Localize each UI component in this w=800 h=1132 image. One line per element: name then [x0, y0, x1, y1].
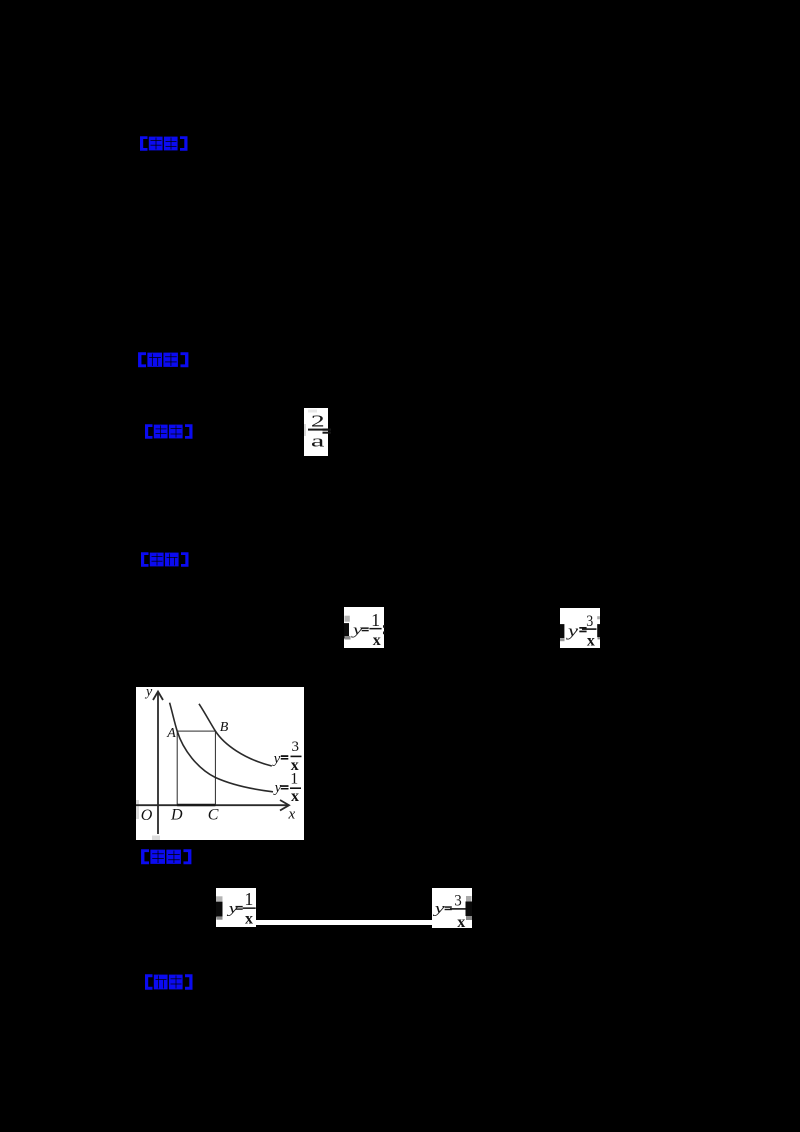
- white underline strip between the two formulas: [256, 920, 432, 926]
- curve label y=1/x: [273, 771, 301, 805]
- svg-text:B: B: [220, 720, 229, 735]
- curve y=1/x: [170, 703, 273, 792]
- curve y=3/x: [199, 704, 272, 766]
- formula image: y=1/x (problem line): [344, 607, 384, 648]
- y-axis: [153, 692, 163, 835]
- svg-text:A: A: [166, 726, 176, 741]
- svg-text:3: 3: [586, 613, 593, 630]
- tag label 5 【考点】: [140, 849, 193, 865]
- tag label 1 【考点】: [139, 136, 189, 151]
- tag label 4 【点评】: [140, 552, 190, 567]
- svg-text:x: x: [457, 914, 465, 931]
- svg-text:D: D: [170, 807, 183, 824]
- svg-text:2: 2: [311, 411, 325, 430]
- svg-text:1: 1: [290, 771, 298, 788]
- svg-text:3: 3: [292, 739, 300, 755]
- tag label 6 【分析】: [144, 974, 194, 990]
- svg-text:y: y: [272, 751, 281, 767]
- svg-text:x: x: [587, 633, 595, 650]
- formula image: fraction 2/a followed by =: [304, 408, 328, 456]
- rectangle ABCD: [177, 731, 215, 805]
- svg-text:a: a: [311, 432, 325, 451]
- svg-text:1: 1: [244, 889, 253, 909]
- svg-text:x: x: [373, 632, 381, 649]
- curve label y=3/x: [272, 739, 302, 774]
- svg-text:O: O: [141, 807, 153, 824]
- graph figure: hyperbolas y=1/x and y=3/x with rectangle ABCD: [136, 687, 304, 840]
- svg-text:y: y: [273, 780, 282, 796]
- svg-text:3: 3: [454, 893, 462, 910]
- svg-text:y: y: [144, 684, 153, 699]
- tag label 2 【分析】: [137, 352, 190, 368]
- formula image: y=1/x (analysis line): [216, 888, 256, 927]
- svg-text:y: y: [432, 901, 445, 917]
- svg-text:x: x: [291, 788, 299, 805]
- tag label 3 【解答】: [144, 424, 194, 439]
- svg-text:x: x: [288, 806, 296, 822]
- x-axis: [136, 800, 289, 811]
- formula image: y=3/x (problem line): [560, 608, 600, 648]
- svg-text:x: x: [245, 911, 253, 928]
- svg-text:y: y: [350, 622, 363, 638]
- formula image: y=3/x (analysis line): [432, 888, 472, 928]
- labels: [141, 684, 296, 824]
- svg-text:y: y: [565, 623, 579, 640]
- svg-text:C: C: [208, 807, 219, 824]
- svg-text:1: 1: [371, 610, 380, 630]
